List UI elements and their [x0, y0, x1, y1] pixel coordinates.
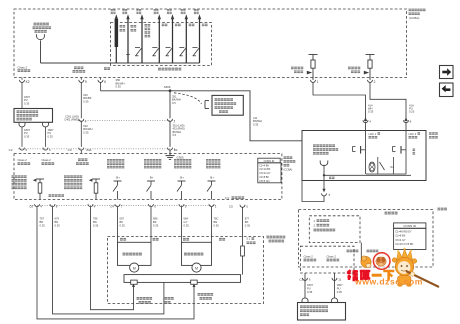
- svg-text:U2C 2: U2C 2: [409, 132, 417, 136]
- svg-text:5.1: 5.1: [247, 237, 251, 241]
- svg-text:9: 9: [85, 80, 87, 84]
- svg-text:M: M: [195, 266, 198, 270]
- svg-text:BK: BK: [120, 220, 124, 224]
- svg-text:C1=48 RD/GY: C1=48 RD/GY: [395, 230, 412, 234]
- svg-text:C2=8 BK: C2=8 BK: [395, 234, 406, 238]
- svg-text:0.35: 0.35: [40, 223, 46, 227]
- svg-text:684: 684: [184, 217, 189, 221]
- svg-text:C5=5 GN: C5=5 GN: [259, 180, 269, 183]
- svg-text:B+: B+: [180, 176, 184, 180]
- svg-text:C5: C5: [229, 205, 233, 209]
- svg-text:0.35: 0.35: [24, 101, 30, 105]
- svg-text:796: 796: [93, 217, 98, 221]
- svg-text:BN: BN: [55, 220, 59, 224]
- svg-text:0.35: 0.35: [184, 223, 190, 227]
- svg-text:CONN ID: CONN ID: [264, 159, 275, 163]
- svg-text:0.5: 0.5: [173, 133, 177, 137]
- svg-text:0.35: 0.35: [24, 134, 30, 138]
- svg-text:877: 877: [245, 217, 250, 221]
- svg-text:1: 1: [317, 80, 319, 84]
- svg-text:BN: BN: [93, 220, 97, 224]
- svg-text:0.35: 0.35: [307, 290, 313, 294]
- svg-text:0.35: 0.35: [116, 85, 122, 89]
- svg-text:CONN ID: CONN ID: [403, 224, 417, 228]
- svg-text:697: 697: [120, 217, 125, 221]
- svg-text:0.5: 0.5: [172, 101, 176, 105]
- svg-text:www.dzsc.com: www.dzsc.com: [354, 277, 423, 287]
- svg-text:0 V: 0 V: [225, 196, 229, 200]
- svg-text:1807: 1807: [337, 283, 343, 287]
- svg-text:0.35: 0.35: [337, 290, 343, 294]
- svg-text:0.35: 0.35: [93, 223, 99, 227]
- svg-text:C4=8 BK: C4=8 BK: [259, 176, 269, 179]
- svg-text:C3=24 GY: C3=24 GY: [259, 172, 271, 175]
- svg-text:C8: C8: [29, 205, 33, 209]
- svg-text:C2=10 BK: C2=10 BK: [259, 168, 271, 171]
- svg-text:C3=4 GY: C3=4 GY: [395, 238, 406, 242]
- svg-text:2: 2: [374, 80, 376, 84]
- svg-text:BN: BN: [40, 220, 44, 224]
- svg-text:0.35: 0.35: [245, 223, 251, 227]
- svg-text:BN: BN: [214, 220, 218, 224]
- svg-text:C401 (RWD): C401 (RWD): [64, 118, 79, 122]
- svg-text:S366: S366: [164, 85, 171, 89]
- svg-text:78C: 78C: [214, 217, 219, 221]
- svg-text:1807: 1807: [307, 283, 313, 287]
- svg-text:BK: BK: [153, 220, 157, 224]
- svg-text:C4=20 GY/5 BK: C4=20 GY/5 BK: [395, 242, 413, 246]
- svg-text:6: 6: [104, 80, 106, 84]
- svg-text:Class 2: Class 2: [18, 158, 28, 162]
- svg-text:0.35: 0.35: [83, 99, 89, 103]
- svg-text:BK: BK: [245, 220, 249, 224]
- svg-text:(CCBA): (CCBA): [284, 169, 293, 172]
- svg-text:0.35: 0.35: [48, 134, 54, 138]
- svg-text:797: 797: [40, 217, 45, 221]
- svg-text:0.35: 0.35: [253, 122, 259, 126]
- svg-text:11: 11: [338, 278, 341, 282]
- svg-text:K2: K2: [26, 80, 30, 84]
- svg-text:B2: B2: [174, 148, 178, 152]
- svg-text:PU: PU: [337, 287, 341, 291]
- svg-text:C1: C1: [299, 278, 303, 282]
- svg-text:C4: C4: [110, 205, 114, 209]
- svg-text:Class 2: Class 2: [42, 158, 52, 162]
- svg-text:0.35: 0.35: [55, 223, 61, 227]
- svg-text:B11: B11: [87, 148, 92, 152]
- svg-text:0.35: 0.35: [214, 223, 220, 227]
- svg-text:(CCBA): (CCBA): [409, 16, 419, 20]
- svg-text:M: M: [133, 266, 136, 270]
- svg-text:679: 679: [55, 217, 60, 221]
- svg-text:Class 2: Class 2: [327, 254, 337, 258]
- svg-text:B+: B+: [210, 176, 214, 180]
- svg-text:0.35: 0.35: [368, 110, 374, 114]
- svg-text:0.25: 0.25: [409, 110, 415, 114]
- svg-text:C3: C3: [68, 148, 72, 152]
- svg-text:B+: B+: [116, 176, 120, 180]
- svg-text:0.35: 0.35: [153, 223, 159, 227]
- svg-text:C1=4 BK: C1=4 BK: [259, 164, 269, 167]
- svg-text:0.35: 0.35: [120, 223, 126, 227]
- svg-text:RA: RA: [391, 166, 395, 169]
- svg-text:GY: GY: [184, 220, 188, 224]
- svg-text:U2C 1: U2C 1: [369, 132, 377, 136]
- svg-text:0.35: 0.35: [83, 130, 89, 134]
- svg-text:Class 2: Class 2: [18, 65, 28, 69]
- svg-text:Class 2: Class 2: [304, 254, 314, 258]
- svg-text:686: 686: [153, 217, 158, 221]
- svg-text:C2: C2: [9, 148, 13, 152]
- svg-text:PU: PU: [307, 287, 311, 291]
- svg-text:B+: B+: [150, 176, 154, 180]
